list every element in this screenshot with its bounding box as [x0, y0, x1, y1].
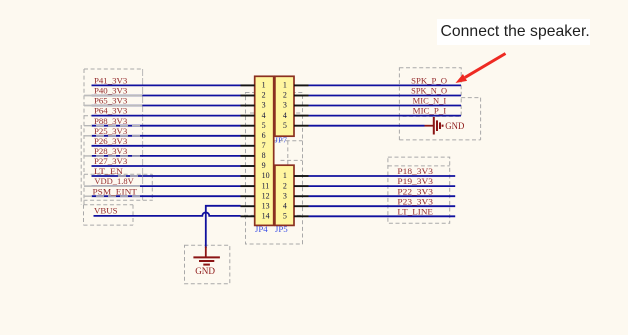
- svg-text:P64_3V3: P64_3V3: [94, 107, 127, 116]
- svg-text:4: 4: [283, 111, 287, 120]
- selection box around bottom GND: [185, 245, 230, 284]
- svg-text:VBUS: VBUS: [94, 207, 118, 216]
- connector JP4 body: [255, 76, 274, 225]
- pin stub JP7-1 (right): [294, 84, 309, 86]
- wire net SPK_P_O: [309, 84, 462, 86]
- selection dash above P18 label: [388, 165, 450, 167]
- svg-text:6: 6: [262, 131, 266, 140]
- svg-text:P22_3V3: P22_3V3: [397, 187, 433, 196]
- svg-text:P23_3V3: P23_3V3: [397, 197, 433, 206]
- pin stub JP5-2 (right): [294, 185, 309, 187]
- svg-text:VDD_1.8V: VDD_1.8V: [94, 177, 134, 186]
- svg-text:P41_3V3: P41_3V3: [94, 77, 127, 86]
- svg-text:14: 14: [262, 212, 270, 221]
- svg-text:3: 3: [283, 101, 287, 110]
- svg-text:7: 7: [262, 141, 266, 150]
- svg-text:2: 2: [283, 181, 287, 190]
- pin stub JP4-4 (left): [241, 115, 255, 117]
- pin stub JP5-1 (right): [294, 175, 309, 177]
- svg-text:P25_3V3: P25_3V3: [94, 127, 127, 136]
- svg-text:GND: GND: [195, 266, 215, 277]
- pin stub JP4-10 (left): [241, 175, 255, 177]
- pin stub JP5-3 (right): [294, 195, 309, 197]
- svg-text:2: 2: [262, 91, 266, 100]
- pin stub JP4-5 (left): [241, 125, 255, 127]
- svg-text:MIC_N_I: MIC_N_I: [413, 97, 447, 106]
- pin stub JP7-3 (right): [294, 105, 309, 107]
- svg-text:JP7: JP7: [275, 135, 288, 144]
- wire net VDD_1.8V: [92, 185, 241, 187]
- wire net GND to JP7 pin 5: [309, 125, 425, 127]
- svg-text:P40_3V3: P40_3V3: [94, 87, 127, 96]
- wire net VBUS (hops over GND wire): [94, 212, 241, 216]
- svg-text:P28_3V3: P28_3V3: [94, 147, 127, 156]
- svg-text:3: 3: [283, 191, 287, 200]
- pin stub JP4-1 (left): [241, 84, 255, 86]
- selection box around right GND group: [399, 98, 480, 140]
- svg-text:1: 1: [262, 81, 266, 90]
- svg-text:5: 5: [283, 212, 287, 221]
- wire net SPK_N_O: [309, 95, 462, 97]
- svg-text:9: 9: [262, 161, 266, 170]
- pin stub JP4-7 (left): [241, 145, 255, 147]
- wire net P25_3V3: [92, 135, 241, 137]
- svg-text:P65_3V3: P65_3V3: [94, 97, 127, 106]
- svg-text:P26_3V3: P26_3V3: [94, 137, 127, 146]
- pin stub JP4-2 (left): [241, 95, 255, 97]
- pin stub JP4-9 (left): [241, 165, 255, 167]
- svg-text:13: 13: [262, 201, 270, 210]
- wire net P64_3V3: [92, 115, 241, 117]
- selection box around connector group: [244, 93, 303, 245]
- svg-text:1: 1: [283, 81, 287, 90]
- wire net P65_3V3: [92, 105, 241, 107]
- wire net P40_3V3: [92, 95, 241, 97]
- wire net P27_3V3: [92, 165, 241, 167]
- wire net GND to JP4 pin 13: [206, 206, 241, 248]
- wire net MIC_P_I: [309, 115, 462, 117]
- svg-text:5: 5: [283, 121, 287, 130]
- selection box around SPK/MIC labels: [399, 68, 461, 117]
- annotation arrow pointing to SPK_P_O: [456, 54, 506, 84]
- connector JP7 body: [275, 76, 294, 136]
- wire net PSM_EINT: [92, 195, 241, 197]
- pin stub JP4-12 (left): [241, 195, 255, 197]
- caption: Connect the speaker: [437, 19, 590, 46]
- wire net P19_3V3: [309, 185, 456, 187]
- wire net LT_LINE: [309, 215, 456, 217]
- svg-text:JP5: JP5: [275, 225, 288, 234]
- wire net MIC_N_I: [309, 105, 462, 107]
- wire net P22_3V3: [309, 195, 456, 197]
- svg-text:12: 12: [262, 191, 270, 200]
- pin stub JP4-3 (left): [241, 105, 255, 107]
- svg-text:1: 1: [283, 171, 287, 180]
- pin stub JP7-2 (right): [294, 95, 309, 97]
- wire net P28_3V3: [92, 155, 241, 157]
- svg-text:3: 3: [262, 101, 266, 110]
- pin stub JP4-11 (left): [241, 185, 255, 187]
- svg-text:P88_3V3: P88_3V3: [94, 117, 127, 126]
- wire net P26_3V3: [92, 145, 241, 147]
- svg-text:P19_3V3: P19_3V3: [397, 177, 433, 186]
- pin stub JP7-5 (right): [294, 125, 309, 127]
- pin stub JP4-8 (left): [241, 155, 255, 157]
- pin stub JP5-4 (right): [294, 205, 309, 207]
- svg-text:11: 11: [262, 181, 270, 190]
- svg-text:P27_3V3: P27_3V3: [94, 157, 127, 166]
- svg-text:MIC_P_I: MIC_P_I: [413, 107, 447, 116]
- svg-text:10: 10: [262, 171, 270, 180]
- ground symbol GND (bottom): [193, 247, 220, 277]
- wire net P23_3V3: [309, 205, 456, 207]
- svg-text:LT_LINE: LT_LINE: [397, 207, 433, 216]
- svg-text:P18_3V3: P18_3V3: [397, 167, 433, 176]
- ground symbol GND (right, rotated): [425, 117, 465, 135]
- svg-text:LT_EN: LT_EN: [94, 167, 123, 176]
- pin stub JP4-6 (left): [241, 135, 255, 137]
- selection overlay on left wires (label boxes): [84, 96, 143, 197]
- pin stub JP4-13 (left): [241, 205, 255, 207]
- wire net P41_3V3: [92, 84, 241, 86]
- wire net P18_3V3: [309, 175, 456, 177]
- selection dash overlay on row4 wire: [84, 115, 250, 117]
- svg-text:SPK_N_O: SPK_N_O: [411, 87, 447, 96]
- svg-text:2: 2: [283, 91, 287, 100]
- pin stub JP5-5 (right): [294, 215, 309, 217]
- svg-text:4: 4: [283, 201, 287, 210]
- selection box around VBUS label: [84, 205, 134, 225]
- selection box around P18..LT_LINE labels: [388, 157, 450, 223]
- svg-text:5: 5: [262, 121, 266, 130]
- connector JP5 body: [275, 165, 294, 225]
- svg-text:JP4: JP4: [255, 225, 268, 234]
- pin stub JP7-4 (right): [294, 115, 309, 117]
- svg-text:8: 8: [262, 151, 266, 160]
- svg-text:PSM_EINT: PSM_EINT: [93, 187, 138, 196]
- svg-text:4: 4: [262, 111, 266, 120]
- svg-text:GND: GND: [445, 121, 464, 132]
- pin stub JP4-14 (left): [241, 215, 255, 217]
- selection box around VDD/PSM labels: [84, 174, 153, 200]
- wire net P88_3V3: [92, 125, 241, 127]
- svg-text:SPK_P_O: SPK_P_O: [411, 77, 447, 86]
- wire net LT_EN: [92, 175, 241, 177]
- selection box around left net labels group: [81, 69, 142, 206]
